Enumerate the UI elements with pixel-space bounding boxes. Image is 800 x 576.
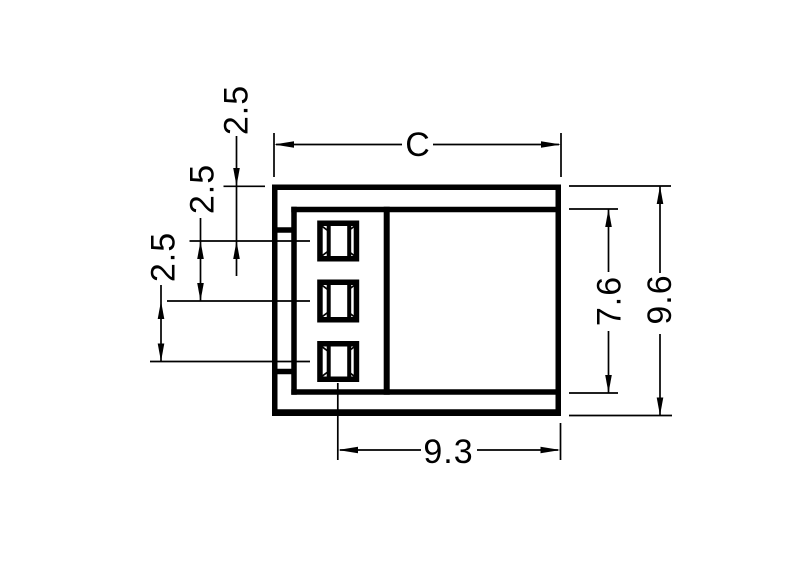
extension line terminal 2 centre	[167, 300, 310, 302]
dimension 9.3	[338, 383, 561, 460]
svg-text:9.6: 9.6	[641, 274, 679, 324]
housing inner outline left edge	[291, 207, 297, 395]
svg-text:C: C	[405, 126, 430, 164]
dimension 2.5 pitch top	[224, 136, 266, 276]
latch notch top	[276, 227, 292, 233]
housing divider wall	[384, 207, 390, 395]
extension line terminal 3 centre	[150, 361, 310, 363]
svg-text:9.3: 9.3	[423, 433, 473, 471]
housing inner outline bottom edge	[291, 389, 558, 395]
dimension 2.5 pitch middle	[200, 218, 202, 301]
connector body bottom wall	[272, 409, 561, 416]
connector body outer outline	[275, 187, 559, 413]
latch notch bottom	[276, 369, 292, 375]
svg-text:2.5: 2.5	[218, 85, 256, 135]
svg-text:7.6: 7.6	[591, 276, 629, 326]
svg-text:2.5: 2.5	[145, 232, 183, 282]
terminal cavity 2	[320, 282, 357, 320]
housing inner outline top edge	[291, 207, 558, 213]
dimension 7.6	[569, 209, 618, 393]
dimension 9.6	[569, 186, 672, 416]
extension line terminal 1 centre	[190, 240, 311, 242]
terminal cavity 3	[320, 344, 357, 380]
svg-text:2.5: 2.5	[184, 164, 222, 214]
dimension C	[274, 133, 561, 177]
dimension 2.5 pitch bottom	[160, 285, 162, 362]
terminal cavity 1	[320, 223, 357, 259]
